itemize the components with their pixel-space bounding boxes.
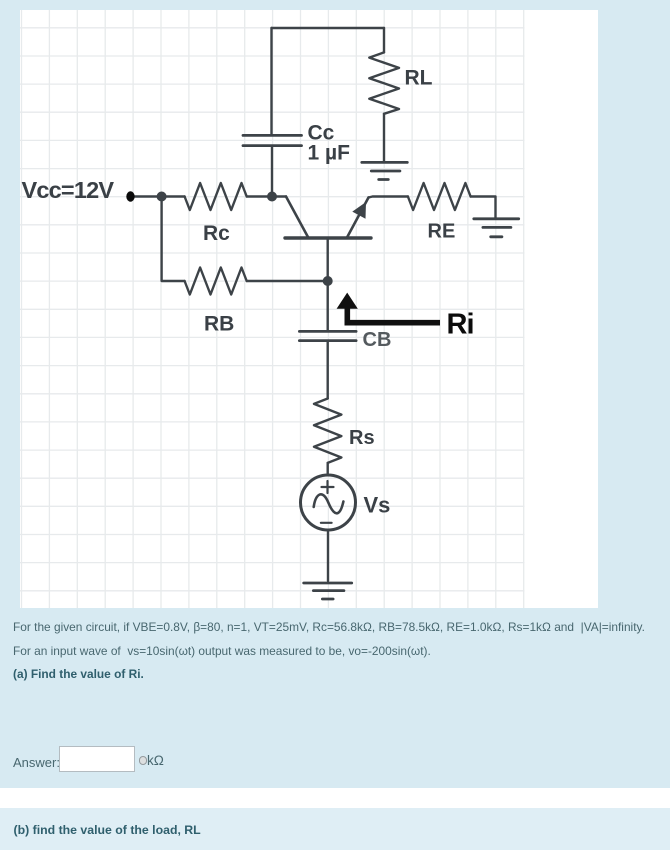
transistor Q1 emitter arrowhead (352, 202, 366, 219)
transistor Q1 collector diagonal (286, 197, 309, 239)
svg-text:1 µF: 1 µF (308, 142, 351, 165)
capacitor CB (299, 330, 356, 333)
wire Vs to ground (327, 530, 329, 581)
wire RE to ground (471, 197, 496, 218)
wire emitter to RE (369, 197, 408, 198)
wire Cc to collector node (271, 147, 273, 197)
question text line 1 (13, 620, 645, 634)
wire RB branch vertical (162, 197, 185, 282)
wire RL to ground (383, 114, 385, 161)
wire left vertical to Cc (270, 28, 272, 134)
question text line 2 (13, 644, 431, 658)
part (a) prompt (13, 667, 144, 681)
wire Vcc feed (135, 195, 185, 197)
svg-text:Ri: Ri (447, 309, 474, 341)
svg-text:RE: RE (428, 221, 456, 243)
svg-text:RB: RB (204, 313, 234, 336)
wire RB to base junction (247, 280, 328, 282)
unit kOhm (147, 753, 164, 768)
node collector junction (267, 192, 277, 202)
wire base down to CB (327, 238, 329, 330)
answer label (13, 755, 60, 770)
grid vertical lines (22, 10, 524, 608)
svg-text:Vs: Vs (364, 493, 391, 518)
ground below Vs (304, 582, 352, 585)
white gap (0, 788, 670, 808)
wire Rc to node and collector stub (247, 195, 286, 197)
node Vcc port dot (126, 191, 134, 201)
wire Rs to Vs (327, 463, 329, 475)
part (b) band (0, 808, 670, 850)
svg-text:CB: CB (363, 329, 392, 351)
transistor Q1 base bar (285, 236, 371, 239)
answer input box (59, 746, 135, 772)
resistor Rc (185, 183, 247, 210)
white schematic card (20, 10, 598, 608)
source Vs sine wave (314, 494, 344, 513)
resistor RB (185, 268, 247, 295)
capacitor Cc (243, 134, 302, 137)
wire top horizontal (272, 27, 385, 29)
svg-text:RL: RL (405, 67, 433, 90)
ground below RL (362, 161, 408, 164)
transistor Q1 emitter diagonal (347, 198, 369, 238)
svg-text:Vcc=12V: Vcc=12V (22, 177, 115, 203)
Ri measurement arrow (347, 307, 440, 323)
source Vs minus sign (321, 522, 332, 524)
svg-text:Rs: Rs (349, 427, 375, 449)
ground right of RE (474, 217, 519, 220)
source Vs plus sign (321, 481, 334, 523)
grid horizontal lines (20, 28, 525, 591)
svg-text:Rc: Rc (203, 222, 230, 245)
part (b) prompt (14, 823, 201, 837)
node junction Vcc/Rc/RB (157, 192, 167, 202)
radio button (139, 756, 148, 765)
resistor RE (408, 183, 471, 210)
node base/RB junction (323, 276, 333, 286)
wire CB to Rs (327, 342, 329, 399)
resistor Rs (314, 399, 341, 463)
wire RL top lead (383, 28, 385, 52)
resistor RL (369, 52, 399, 113)
source Vs circle (301, 475, 356, 530)
